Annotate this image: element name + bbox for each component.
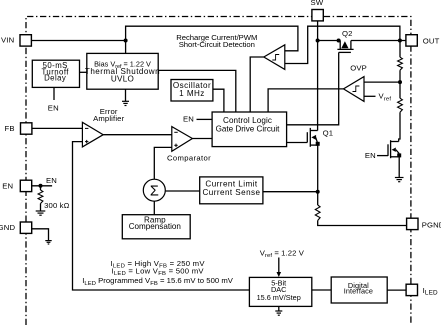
wire bias block to ground [125,89,127,101]
svg-text:EN: EN [48,104,59,113]
wire DAC to digital interface [312,289,331,291]
wire OUT sense to recharge comparator lower input [285,26,400,63]
wire GND pin to ground [32,229,49,241]
block digital interface [331,277,387,303]
block bias thermal shutdown UVLO [85,53,160,89]
pin EN [20,180,31,191]
ground below bias block [122,101,129,105]
ground below 300k resistor [36,211,46,215]
resistor R2 divider lower [398,98,403,112]
wire digital interface to ILED pin [387,289,406,291]
pin FB [21,123,32,134]
svg-text:1 MHz: 1 MHz [179,89,205,98]
summer sigma node [143,179,165,201]
ground at GND pin [45,241,51,244]
node Q1 source sense junction [316,190,320,194]
label 300 kOhm [44,201,70,210]
wire OVP comparator lower input Vref stub [364,95,376,97]
svg-text:Q2: Q2 [342,29,353,38]
label EN under 50-mS delay [48,104,59,113]
pin ILED [406,284,417,295]
op-amp recharge current PWM short-circuit detection comparator [264,45,285,70]
svg-text:UVLO: UVLO [111,75,134,84]
svg-text:Short-Circuit Detection: Short-Circuit Detection [179,40,255,49]
label ILED programmed setting [82,276,234,287]
svg-text:Gate Drive Circuit: Gate Drive Circuit [216,124,281,133]
svg-text:Compensation: Compensation [129,222,181,231]
wire Q2 gate to control logic [287,52,339,124]
svg-text:Amplifier: Amplifier [93,114,125,123]
label OUT [423,37,440,46]
block ramp compensation [122,215,190,239]
wire SW pin down to Q1 drain [317,21,319,131]
pin SW [312,10,323,21]
label Q2 [342,29,353,38]
wire DAC output to error amplifier non-inverting input [73,142,250,290]
wire control logic to Q1 gate [287,142,308,144]
ground below DAC [275,311,282,315]
wire divider bottom to EN switch drain [399,112,400,141]
wire 50-mS delay to bias block [80,71,87,73]
label Q1 [323,128,334,137]
wire error amplifier output to comparator [103,134,172,136]
label EN pin [2,182,13,191]
node VIN junction [124,39,128,43]
op-amp PWM comparator [172,127,193,152]
label OVP [350,64,367,73]
wire Q1 source to current sense resistor [317,144,319,205]
block control logic gate drive circuit [212,112,287,147]
wire shutdown switch source to ground [398,157,400,178]
block 5-bit DAC [249,277,311,306]
op-amp error amplifier [82,122,103,147]
svg-text:Comparator: Comparator [167,154,211,163]
wire EN to control logic [197,118,213,120]
wire summer to comparator non-inverting input [154,147,172,179]
wire Vref arrow into DAC [277,258,282,278]
block current limit current sense [200,177,263,204]
svg-text:FB: FB [4,124,14,133]
wire divider top segment [399,41,401,58]
node Vref label for DAC [260,248,305,259]
svg-text:GND: GND [0,223,15,232]
svg-text:Current Sense: Current Sense [202,188,260,197]
node EN junction [39,184,43,188]
svg-text:Σ: Σ [150,183,159,199]
svg-text:EN: EN [365,151,376,160]
transistor EN shutdown switch [388,140,401,158]
label recharge current PWM short-circuit detection [176,33,257,49]
svg-text:EN: EN [46,176,57,185]
node divider tap junction [398,80,402,84]
wire summer to current limit block [166,190,200,192]
svg-text:OUT: OUT [423,37,440,46]
wire OVP comparator upper input to divider tap [364,81,400,83]
transistor Q1 [307,128,319,147]
wire FB pin to error amplifier inverting input [32,127,83,129]
block oscillator 1 MHz [171,80,213,102]
label comparator [167,154,211,163]
svg-text:OVP: OVP [350,64,367,73]
wire between divider resistors [399,70,401,98]
ground below shutdown switch [395,178,404,182]
label GND [0,223,15,232]
label EN at control logic [183,115,194,124]
wire SW rail to Q2 [318,40,341,42]
label Vref at OVP [379,92,392,103]
block 50-mS turnoff delay [32,60,79,87]
svg-text:EN: EN [183,115,194,124]
node SW rail junction [316,39,320,43]
wire oscillator to control logic [213,89,224,112]
resistor R3 current sense [315,205,320,221]
label error amplifier [93,107,125,123]
label SW [311,0,324,7]
wire DAC to ground [278,306,280,311]
wire comparator output to control logic [192,138,212,140]
wire VIN rail to recharge comparator upper input [126,26,298,51]
wire recharge comparator output to control logic [250,57,264,112]
svg-text:Delay: Delay [44,74,66,83]
label EN net at EN pin [46,176,57,185]
label EN at shutdown switch [365,151,376,160]
wire bias block to control logic [158,70,236,112]
svg-text:Q1: Q1 [323,128,334,137]
svg-text:15.6 mV/Step: 15.6 mV/Step [257,293,301,302]
wire Q2 to OUT pin [351,40,406,42]
wire VIN pin to junction [32,40,126,42]
resistor R1 divider upper [398,57,403,70]
op-amp OVP comparator [344,77,365,102]
wire VIN junction down to bias block [125,41,127,54]
wire current limit block to Q1 source node [263,191,318,193]
svg-text:EN: EN [2,182,13,191]
resistor R4 300k pulldown [38,186,43,211]
svg-text:VIN: VIN [1,36,14,45]
wire summer to ramp compensation [153,202,155,215]
svg-text:300 kΩ: 300 kΩ [44,201,70,210]
label FB [4,124,14,133]
wire OVP comparator output to control logic [268,89,343,112]
svg-text:Interface: Interface [344,287,373,296]
svg-text:PGND: PGND [422,220,441,229]
label ILED low setting [111,266,204,277]
wire EN label to shutdown switch gate [377,155,388,157]
transistor Q2 [337,41,353,53]
label ILED [423,286,438,297]
svg-text:SW: SW [311,0,324,7]
wire current sense resistor to PGND pin [318,221,407,226]
label PGND [422,220,441,229]
pin OUT [406,35,417,46]
node Q2 source dot [337,39,341,43]
wire EN stub under 50-mS delay [53,87,55,100]
pin PGND [407,218,418,229]
pin GND [20,222,31,233]
label VIN [1,36,14,45]
wire EN pin to EN net [32,185,52,187]
pin VIN [20,35,31,46]
node OUT junction [398,39,402,43]
label ILED high setting [110,259,205,270]
